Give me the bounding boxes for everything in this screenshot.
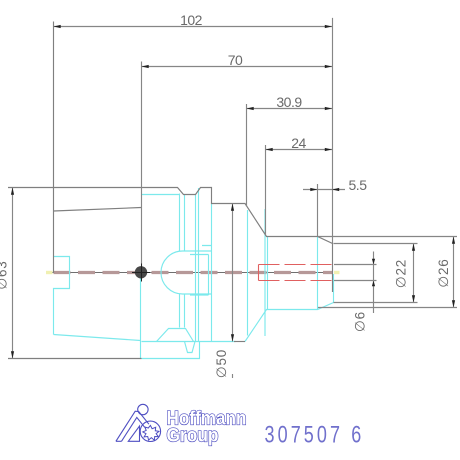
dimension 5.5 bbox=[303, 189, 345, 191]
node cyan flange bottom outline bbox=[142, 342, 236, 359]
node cyan neck vertical c bbox=[247, 210, 249, 336]
node cyan groove vertical b2 bbox=[198, 188, 200, 342]
svg-text:24: 24 bbox=[291, 135, 306, 151]
logo hoffmann figure bbox=[116, 404, 161, 441]
node gauge extension line bbox=[141, 62, 143, 273]
node cyan flange top line bbox=[142, 194, 180, 196]
node extension 5.5 bbox=[317, 184, 319, 237]
node cyan neck vertical d bbox=[264, 209, 266, 336]
node cyan notch back face bbox=[54, 257, 70, 335]
centerline yellow dash left bbox=[46, 271, 53, 274]
svg-text:70: 70 bbox=[228, 52, 243, 68]
svg-text:∅50: ∅50 bbox=[214, 349, 229, 378]
logo text hoffmann bbox=[167, 409, 247, 447]
centerline yellow dash right bbox=[334, 271, 340, 274]
node cyan wing trapezoid bbox=[157, 329, 194, 342]
node part bottom line bbox=[8, 358, 142, 360]
node cyan groove vertical b1 bbox=[195, 195, 197, 342]
dimension dia63 bbox=[12, 188, 14, 359]
svg-text:Group: Group bbox=[167, 426, 219, 447]
node cyan vee bottom bbox=[185, 342, 196, 353]
node part collar bottom gray bbox=[234, 341, 245, 343]
svg-text:∅26: ∅26 bbox=[436, 258, 451, 287]
svg-text:30.9: 30.9 bbox=[276, 94, 302, 110]
wire centerline thin bbox=[46, 272, 332, 274]
node extension 24 bbox=[265, 145, 267, 235]
dimension 70 bbox=[142, 66, 333, 68]
node cyan shank taper bottom bbox=[54, 335, 141, 341]
node red highlight box bbox=[258, 265, 260, 281]
node dome cyan stadium bbox=[161, 251, 212, 294]
node cyan groove vertical a2 bbox=[184, 195, 186, 328]
node part taper top slant bbox=[54, 208, 142, 212]
node cyan gauge vertical bbox=[140, 278, 142, 359]
svg-text:∅22: ∅22 bbox=[394, 259, 409, 288]
dimension 24 bbox=[266, 149, 333, 151]
node extension 30.9 bbox=[246, 104, 248, 207]
svg-text:∅6: ∅6 bbox=[353, 311, 368, 332]
node cyan neck bottom outline bbox=[245, 274, 334, 342]
dimension 30.9 bbox=[247, 108, 333, 110]
node cyan chamfer vertical bbox=[317, 237, 319, 310]
node nose extension line bbox=[332, 18, 334, 244]
centerline red dashes bbox=[54, 271, 333, 274]
node part top outline bbox=[8, 188, 333, 293]
svg-text:307507 6: 307507 6 bbox=[265, 422, 365, 448]
svg-text:102: 102 bbox=[180, 12, 203, 28]
node cyan groove vertical a1 bbox=[179, 194, 181, 328]
node part back edge bbox=[53, 22, 55, 273]
label article number bbox=[265, 422, 365, 448]
svg-text:∅63: ∅63 bbox=[0, 260, 10, 289]
dimension 102 bbox=[54, 26, 333, 28]
node center marker bbox=[135, 266, 147, 278]
dimension dia6 bbox=[373, 252, 375, 314]
dimension dia50 bbox=[232, 204, 234, 342]
dimension dia22 bbox=[413, 244, 415, 303]
dimension dia26 bbox=[453, 237, 455, 308]
svg-text:5.5: 5.5 bbox=[349, 177, 368, 193]
node dome inner lines bbox=[190, 246, 212, 296]
node cyan collar vertical bbox=[211, 204, 213, 342]
